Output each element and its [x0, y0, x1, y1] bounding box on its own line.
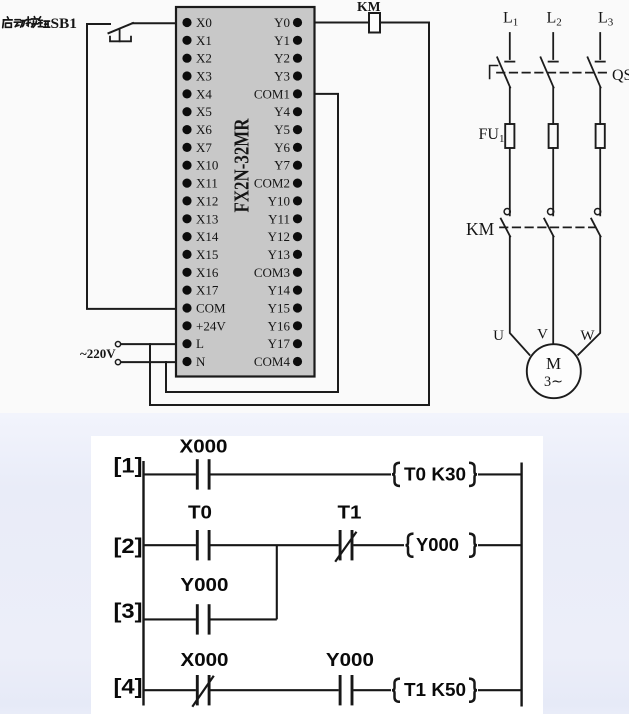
contact T0 NO (rung 2): [196, 530, 199, 560]
svg-text:V: V: [537, 327, 548, 343]
svg-text:X12: X12: [196, 193, 218, 208]
disconnect switch QS pole 3 blade: [588, 57, 601, 87]
terminal Y0: [274, 15, 302, 30]
svg-text:U: U: [493, 328, 504, 344]
fuse FU1 phase 3: [596, 124, 605, 148]
wire SB1 down to COM: [87, 24, 183, 309]
svg-text:QS: QS: [612, 67, 629, 84]
contactor KM pole 2 blade: [544, 219, 553, 237]
wire Y0 to KM coil and down right side: [150, 23, 429, 406]
terminal Y5: [274, 122, 302, 137]
terminal Y7: [274, 158, 302, 173]
ladder left rail: [142, 461, 144, 706]
svg-text:COM1: COM1: [254, 86, 290, 101]
svg-text:Y000: Y000: [180, 575, 228, 595]
disconnect switch QS pole 1 blade: [497, 57, 510, 87]
svg-text:SB1: SB1: [51, 16, 78, 32]
svg-text:KM: KM: [466, 219, 495, 239]
svg-text:Y13: Y13: [268, 247, 290, 262]
rung 2 wire: rail to T0: [144, 544, 196, 546]
svg-text:Y16: Y16: [268, 318, 291, 333]
terminal Y16: [268, 318, 302, 333]
svg-text:X1: X1: [196, 33, 212, 48]
svg-text:X14: X14: [196, 229, 219, 244]
contact T1 NC (rung 2): [339, 530, 342, 560]
terminal Y14: [268, 283, 302, 298]
svg-text:T0 K30: T0 K30: [404, 464, 466, 484]
svg-text:Y000: Y000: [326, 650, 374, 670]
T1 NC slash: [335, 532, 356, 562]
terminal X16: [182, 265, 218, 280]
svg-text:Y0: Y0: [274, 15, 290, 30]
svg-text:X4: X4: [196, 86, 212, 101]
svg-text:3∼: 3∼: [544, 374, 563, 390]
rung 4 wire: coil to rail: [478, 689, 522, 691]
svg-text:M: M: [546, 354, 561, 373]
svg-text:KM: KM: [357, 0, 381, 15]
terminal X14: [182, 229, 218, 244]
contactor KM pole 1 blade: [501, 219, 510, 237]
terminal X12: [182, 193, 218, 208]
svg-text:+24V: +24V: [196, 318, 226, 333]
rung 3 wire: rail to Y000: [144, 618, 196, 620]
wire COM1 loop to N: [166, 94, 338, 392]
rung 1 wire: coil to rail: [478, 473, 522, 475]
terminal Y11: [268, 211, 302, 226]
svg-text:X000: X000: [180, 437, 228, 457]
KM linkage (dashed): [500, 226, 595, 228]
fuse FU1 phase 2: [549, 124, 558, 148]
svg-text:[3]: [3]: [114, 600, 143, 623]
svg-text:X7: X7: [196, 140, 212, 155]
label: start button SB1 (Chinese 启动按钮 + SB1): [3, 17, 50, 28]
wire phase 2 to motor V: [552, 237, 554, 345]
svg-text:Y3: Y3: [274, 69, 290, 84]
contactor KM pole 3 blade: [591, 219, 600, 237]
rung 2 wire: coil to rail: [478, 544, 522, 546]
wire fuse to KM contact phase 1: [509, 148, 511, 215]
contact Y000 NO (rung 3): [196, 604, 199, 634]
wire QS to fuse phase 2: [552, 88, 554, 125]
svg-text:Y10: Y10: [268, 193, 290, 208]
terminal X17: [182, 283, 218, 298]
svg-text:FX2N-32MR: FX2N-32MR: [230, 118, 254, 213]
rung 1 wire: rail to X000: [144, 473, 196, 475]
svg-text:X2: X2: [196, 51, 212, 66]
svg-text:N: N: [196, 354, 206, 369]
svg-text:X13: X13: [196, 211, 218, 226]
svg-text:~220V: ~220V: [80, 346, 116, 361]
svg-text:Y5: Y5: [274, 122, 290, 137]
terminal +24V: [182, 318, 226, 333]
rung 2 wire: T0 to T1: [211, 544, 339, 546]
terminal Y13: [268, 247, 302, 262]
terminal Y17: [268, 336, 302, 351]
svg-text:X15: X15: [196, 247, 218, 262]
svg-text:T0: T0: [188, 503, 212, 523]
terminal Y2: [274, 51, 302, 66]
supply stub L3 with end bar: [599, 33, 601, 59]
svg-text:X3: X3: [196, 69, 212, 84]
rung 4 wire: Y000 to coil: [353, 689, 391, 691]
wire L terminal: [121, 343, 184, 345]
supply terminal circle L: [115, 342, 120, 347]
terminal Y15: [268, 301, 302, 316]
svg-text:Y12: Y12: [268, 229, 290, 244]
svg-text:X6: X6: [196, 122, 212, 137]
branch wire rung2 to rung3: [276, 545, 278, 619]
coil T0 K30 braces: [392, 463, 400, 486]
terminal L: [182, 336, 204, 351]
wire fuse to KM contact phase 3: [599, 148, 601, 215]
wire SB1 to X0 (horizontal top): [87, 23, 110, 25]
svg-text:Y4: Y4: [274, 104, 290, 119]
rung 3 wire: Y000 to branch: [211, 618, 277, 620]
terminal X11: [182, 176, 218, 191]
svg-text:Y14: Y14: [268, 283, 291, 298]
rung 1 wire: X000 to coil: [211, 473, 392, 475]
terminal X6: [182, 122, 212, 137]
QS linkage (dashed): [497, 72, 610, 74]
terminal Y12: [268, 229, 302, 244]
rung 4 wire: X000 to Y000: [211, 689, 339, 691]
svg-text:X10: X10: [196, 158, 218, 173]
svg-text:W: W: [580, 328, 595, 344]
svg-text:[1]: [1]: [114, 455, 143, 478]
terminal COM3: [254, 265, 302, 280]
terminal Y10: [268, 193, 302, 208]
svg-text:Y7: Y7: [274, 158, 290, 173]
svg-text:Y6: Y6: [274, 140, 290, 155]
supply stub L2 with end bar: [552, 33, 554, 59]
motor M circle: [527, 344, 581, 398]
terminal X3: [182, 69, 211, 84]
svg-text:[2]: [2]: [114, 535, 143, 558]
svg-text:Y1: Y1: [274, 33, 290, 48]
wire QS to fuse phase 1: [509, 88, 511, 125]
svg-text:L: L: [196, 336, 204, 351]
svg-text:X0: X0: [196, 15, 212, 30]
wire phase 1 to motor U: [510, 237, 530, 355]
wire QS to fuse phase 3: [599, 88, 601, 125]
svg-text:X000: X000: [181, 650, 229, 670]
terminal X5: [182, 104, 211, 119]
svg-text:COM3: COM3: [254, 265, 290, 280]
terminal Y6: [274, 140, 302, 155]
svg-text:X11: X11: [196, 176, 218, 191]
terminal X7: [182, 140, 212, 155]
contact Y000 NO (rung 4): [339, 675, 342, 705]
svg-text:T1 K50: T1 K50: [404, 680, 466, 700]
terminal Y3: [274, 69, 302, 84]
terminal X13: [182, 211, 218, 226]
svg-text:Y000: Y000: [416, 535, 459, 555]
terminal COM2: [254, 176, 302, 191]
wire phase 3 to motor W: [578, 237, 600, 355]
terminal COM1: [254, 86, 302, 101]
svg-text:COM4: COM4: [254, 354, 291, 369]
coil Y000 braces: [406, 534, 414, 557]
terminal X15: [182, 247, 218, 262]
svg-text:COM: COM: [196, 301, 226, 316]
contactor KM pole 1 fixed contact arc: [504, 209, 510, 215]
svg-text:Y11: Y11: [268, 211, 290, 226]
contact X000 NC (rung 4): [196, 675, 199, 705]
QS operating handle mark: [490, 66, 498, 79]
svg-text:Y2: Y2: [274, 51, 290, 66]
svg-text:X17: X17: [196, 283, 219, 298]
wire fuse to KM contact phase 2: [552, 148, 554, 215]
terminal X2: [182, 51, 211, 66]
PLC FX2N-32MR body: [176, 7, 315, 377]
svg-text:Y17: Y17: [268, 336, 291, 351]
rung 4 wire: rail to X000: [144, 689, 196, 691]
terminal COM4: [254, 354, 302, 369]
terminal X10: [182, 158, 218, 173]
coil T1 K50 braces: [392, 679, 400, 702]
terminal N: [182, 354, 206, 369]
terminal Y4: [274, 104, 302, 119]
pushbutton SB1 contact blade: [109, 23, 134, 33]
terminal X0: [182, 15, 211, 30]
fuse FU1 phase 1: [505, 124, 514, 148]
supply stub L1 with end bar: [509, 33, 511, 59]
contactor KM pole 2 fixed contact arc: [548, 209, 554, 215]
svg-text:X16: X16: [196, 265, 219, 280]
svg-text:[4]: [4]: [114, 676, 143, 699]
terminal COM: [182, 301, 226, 316]
svg-text:X5: X5: [196, 104, 212, 119]
ladder right rail: [520, 463, 522, 707]
svg-text:T1: T1: [338, 503, 362, 523]
supply terminal circle N: [115, 360, 120, 365]
terminal X1: [182, 33, 211, 48]
svg-text:Y15: Y15: [268, 301, 290, 316]
contact X000 NO (rung 1): [196, 459, 199, 489]
terminal Y1: [274, 33, 302, 48]
terminal X4: [182, 86, 212, 101]
wire N terminal: [121, 361, 184, 363]
contactor coil KM (rectangle): [369, 13, 380, 33]
disconnect switch QS pole 2 blade: [541, 57, 554, 87]
rung 2 wire: T1 to coil: [353, 544, 404, 546]
pushbutton SB1 plunger: [119, 30, 121, 42]
X000 NC slash: [192, 676, 214, 707]
contactor KM pole 3 fixed contact arc: [595, 209, 601, 215]
svg-text:COM2: COM2: [254, 176, 290, 191]
